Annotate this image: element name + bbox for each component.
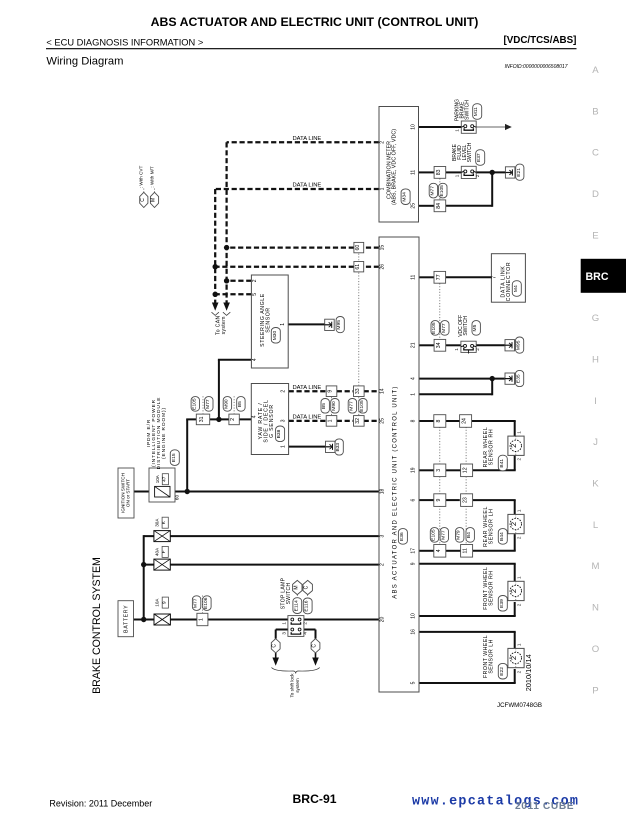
connector M34 [401, 189, 410, 205]
svg-text:SENSOR RH: SENSOR RH [488, 429, 494, 466]
svg-text:5: 5 [410, 681, 416, 684]
svg-text:24: 24 [462, 418, 468, 424]
connector E116 [303, 598, 312, 614]
connector box 83 [434, 167, 446, 179]
svg-text:2: 2 [509, 589, 518, 593]
wire steering sensor pin 4 branch [218, 360, 252, 420]
svg-text:M95: M95 [336, 320, 342, 330]
wire VDC OFF switch to ground M95 [476, 344, 505, 346]
svg-text:BATTERY: BATTERY [123, 605, 129, 633]
svg-text:10: 10 [410, 613, 416, 619]
svg-text:E105: E105 [439, 185, 445, 197]
svg-text:E15: E15 [171, 453, 177, 462]
wire meter pin 11 to connector 83 [419, 171, 435, 173]
page title [151, 15, 479, 29]
svg-text:C: C [312, 644, 318, 648]
CAN brackets [212, 312, 231, 315]
svg-text:10A: 10A [154, 598, 159, 607]
connector box 31 [196, 414, 209, 425]
svg-text:BRC-91: BRC-91 [292, 792, 336, 806]
connector box 11 rear [461, 545, 473, 558]
svg-text:2: 2 [475, 348, 480, 351]
footer revision [49, 798, 152, 808]
shift lock arrow right [312, 653, 319, 666]
fuse 30A [154, 531, 170, 542]
svg-text:2: 2 [516, 603, 521, 606]
svg-text:M: M [293, 585, 299, 589]
svg-text:C: C [592, 148, 599, 159]
connector box 77 [434, 271, 446, 283]
wire connector 34 to VDC OFF switch [446, 344, 461, 346]
svg-text:B: B [592, 106, 598, 117]
svg-text:7: 7 [492, 276, 498, 279]
svg-text:SWITCH: SWITCH [463, 316, 469, 336]
svg-text:(ENGINE ROOM)): (ENGINE ROOM)) [161, 407, 167, 459]
svg-text:JCFWM0748GB: JCFWM0748GB [497, 702, 542, 709]
wire front wheel sensor LH return to ABS pin 5 [419, 669, 516, 683]
svg-text:2011 CUBE: 2011 CUBE [515, 801, 574, 812]
svg-text:4: 4 [410, 377, 416, 380]
svg-text:1: 1 [282, 622, 287, 625]
dotted link 83-84 [439, 179, 441, 201]
svg-text:1: 1 [516, 509, 521, 512]
ground symbol E21 [505, 167, 515, 178]
ABS right pin 16 [410, 629, 416, 635]
fuse 10A battery [154, 614, 170, 625]
svg-text:M77: M77 [205, 399, 211, 409]
meter pin 11 [410, 170, 416, 175]
wire connector 83 to brake fluid level switch [446, 171, 462, 173]
connector box 12 [461, 464, 473, 477]
svg-text:G: G [592, 313, 599, 324]
connector E22 [498, 663, 507, 679]
wire battery row to ABS pin 20 [134, 619, 380, 621]
svg-text:11: 11 [410, 274, 416, 279]
svg-text:19: 19 [410, 467, 416, 473]
svg-text:B5: B5 [321, 403, 327, 409]
svg-text:M: M [592, 561, 600, 572]
connector box 4 rear [434, 545, 446, 558]
rear LH pin 1 [516, 509, 521, 512]
connector E39 [498, 596, 507, 612]
yaw rate sensor box [251, 384, 288, 455]
front LH pin 1 [516, 643, 521, 646]
connector M5 [472, 321, 480, 336]
rear wheel sensor RH [508, 436, 524, 455]
svg-text:1: 1 [328, 419, 334, 422]
svg-text:8: 8 [436, 419, 442, 422]
dotted link 61-33 [358, 273, 360, 386]
label front wheel sensor LH [483, 635, 494, 678]
wire connector row to yaw sensor pin 4 [186, 418, 251, 420]
front RH pin 1 [516, 576, 521, 579]
svg-text:BRAKE CONTROL SYSTEM: BRAKE CONTROL SYSTEM [91, 557, 103, 694]
svg-text:Revision: 2011 December: Revision: 2011 December [49, 798, 152, 808]
svg-text:SWITCH: SWITCH [467, 142, 473, 162]
wire rear wheel sensor RH return to ABS pin 19 [419, 455, 516, 470]
svg-text:BRC: BRC [586, 271, 609, 283]
ground symbol M95 steering [325, 319, 335, 330]
connector B33 [335, 439, 343, 455]
svg-text:1: 1 [280, 445, 286, 448]
svg-text:14: 14 [380, 388, 386, 394]
svg-text:INFOID:0000000006508017: INFOID:0000000006508017 [505, 64, 568, 70]
connector M90 left [223, 397, 231, 412]
svg-text:DATA LINE: DATA LINE [293, 136, 322, 142]
svg-text:1: 1 [516, 643, 521, 646]
svg-text:2: 2 [516, 536, 521, 539]
steering pin 4 [252, 358, 258, 361]
wire connector 77 to data link connector pin 7 [445, 276, 491, 278]
svg-text:M77: M77 [348, 401, 354, 411]
svg-text:Wiring Diagram: Wiring Diagram [46, 56, 123, 68]
rear RH pin 2 [516, 457, 521, 460]
wire CAN data line 1 to meter pin 2 [227, 141, 379, 143]
svg-text:2: 2 [230, 418, 236, 421]
svg-text:system: system [295, 678, 300, 693]
ground symbol E35 [505, 373, 515, 384]
wire ABS pin 4 to ground E35 [419, 378, 505, 380]
svg-text:4: 4 [252, 415, 258, 418]
parking brake switch pin 1 [455, 129, 460, 132]
svg-text:: With M/T: : With M/T [150, 166, 155, 187]
connector box 3 [434, 464, 446, 477]
DLC pin 7 [492, 276, 498, 279]
connector box 60 [354, 242, 364, 252]
connector M77 rear [440, 528, 448, 543]
connector M79 rear [456, 528, 464, 543]
svg-text:4: 4 [252, 358, 258, 361]
connector box 34 [434, 339, 446, 351]
svg-text:A: A [592, 65, 599, 76]
svg-text:J: J [593, 437, 598, 448]
label To shift lock system [290, 673, 301, 698]
steering pin 1 [280, 323, 286, 326]
svg-text:11: 11 [410, 170, 416, 175]
label rear wheel sensor RH [483, 427, 494, 468]
svg-text:M77: M77 [441, 323, 447, 333]
svg-text:16: 16 [410, 629, 416, 635]
legend With MT [150, 166, 159, 207]
sidebar letters [592, 65, 600, 696]
svg-text:B33: B33 [335, 443, 341, 452]
svg-text:9: 9 [436, 499, 442, 502]
rear wheel sensor LH [508, 514, 524, 533]
svg-text:9: 9 [410, 562, 416, 565]
stop lamp pin 2 [302, 622, 307, 625]
connector M77 above 34 [441, 321, 449, 336]
svg-text:6: 6 [410, 498, 416, 501]
svg-text:1: 1 [454, 348, 459, 351]
meter pin 10 [410, 124, 416, 130]
connector E37 [476, 150, 485, 166]
fuse 10A IPDM [155, 486, 170, 497]
fuse id box 9 [161, 597, 168, 608]
wire 40A fuse row to ABS pin 2 [144, 564, 379, 566]
svg-text:15: 15 [380, 245, 386, 251]
svg-text:2: 2 [509, 522, 518, 526]
wire yaw data line row 1 [289, 390, 379, 392]
ABS left pin 15 [380, 245, 386, 251]
svg-text:47: 47 [161, 476, 167, 482]
connector M30 [271, 328, 280, 344]
svg-text:E105: E105 [191, 398, 197, 410]
svg-text:M34: M34 [402, 192, 408, 202]
svg-text:2: 2 [280, 390, 286, 393]
CAN arrow 2 [212, 303, 219, 311]
svg-text:25: 25 [410, 203, 416, 209]
svg-text:E116: E116 [304, 600, 310, 611]
stop lamp switch [288, 616, 304, 637]
wire ignition switch to IPDM and ABS pin 18 [134, 491, 379, 493]
connector B5 yaw [321, 399, 329, 414]
ABS right pin 9 [410, 562, 416, 565]
ABS right pin 8 [410, 419, 416, 422]
ground symbol M95 VDC [505, 340, 515, 351]
svg-text:25: 25 [380, 418, 386, 424]
svg-text:M4: M4 [513, 285, 519, 292]
header right: system tag [503, 35, 576, 46]
legend With CVT [139, 165, 148, 207]
wire CAN row to steering sensor pin 5 [215, 293, 251, 295]
label front wheel sensor RH [483, 567, 494, 610]
svg-text:M79: M79 [456, 530, 462, 540]
ABS left pin 26 [380, 264, 386, 270]
svg-text:SENSOR LH: SENSOR LH [488, 639, 494, 673]
connector E114 [293, 598, 302, 614]
wire yaw sensor pin 1 to ground B33 [289, 446, 326, 448]
junction dot pin4 ground [490, 376, 495, 381]
connector box 1 yaw [326, 416, 337, 427]
fuse 40A [154, 559, 170, 570]
svg-text:3: 3 [280, 419, 286, 422]
data link connector box [491, 254, 525, 303]
svg-text:< ECU DIAGNOSIS INFORMATION >: < ECU DIAGNOSIS INFORMATION > [46, 37, 203, 47]
wire branch up from ignition feed [186, 419, 188, 491]
svg-text:SENSOR: SENSOR [266, 307, 272, 333]
steering angle sensor box [251, 275, 288, 368]
hexagon M stop lamp [293, 580, 302, 594]
hexagon C stop lamp [303, 580, 312, 594]
brake fluid pin 1 [455, 174, 460, 177]
connector E105 left [191, 397, 199, 412]
svg-text:K: K [592, 479, 599, 490]
yaw pin 2 [280, 390, 286, 393]
junction dot 40A branch [141, 562, 146, 567]
svg-text:ABS ACTUATOR AND ELECTRIC UNIT: ABS ACTUATOR AND ELECTRIC UNIT (CONTROL … [151, 15, 479, 29]
wire stop lamp switch to shift lock left [276, 630, 288, 639]
connector B38 [276, 426, 285, 442]
svg-text:E114: E114 [293, 600, 299, 611]
dotted link box1 battery [201, 596, 203, 614]
svg-text:11: 11 [463, 548, 469, 553]
svg-text:2010/10/14: 2010/10/14 [524, 654, 533, 691]
IPDM pin 60 [175, 495, 180, 501]
svg-text:M11: M11 [473, 107, 479, 116]
connector E105 above 34 [431, 321, 439, 336]
connector E105 above 84 [439, 183, 447, 198]
svg-text:[VDC/TCS/ABS]: [VDC/TCS/ABS] [503, 35, 576, 46]
system caption BRAKE CONTROL SYSTEM [91, 557, 103, 694]
connector box 24 [460, 415, 472, 428]
parking brake switch case ground lead [476, 124, 512, 130]
svg-text:E105: E105 [359, 400, 365, 412]
wire connector 84 to junction [446, 171, 493, 206]
yaw pin 3 [280, 419, 286, 422]
svg-text:2: 2 [252, 279, 258, 282]
svg-text:83: 83 [436, 169, 442, 175]
svg-text:M90: M90 [331, 401, 337, 411]
ABS right pin 4 [410, 377, 416, 380]
connector E105 yaw [359, 399, 367, 414]
front LH pin 2 [516, 670, 521, 673]
svg-text:B5: B5 [237, 401, 243, 407]
svg-text:10: 10 [410, 124, 416, 130]
svg-text:D: D [592, 189, 599, 200]
connector M95 steering [336, 317, 344, 333]
ABS right pin 11 [410, 274, 416, 279]
label DATA LINE 3 [293, 385, 322, 391]
connector box 32 [354, 416, 365, 427]
connector E105 rear [430, 528, 438, 543]
stop lamp pin 4 [302, 632, 307, 635]
svg-text:B41: B41 [499, 459, 505, 468]
ground symbol B33 [326, 441, 336, 452]
svg-text:To shift lock: To shift lock [290, 673, 295, 698]
connector M77 left [205, 397, 213, 412]
connector M11 [473, 104, 482, 120]
label DATA LINE 4 [293, 415, 322, 421]
connector box 1 battery [197, 613, 208, 625]
front RH pin 2 [516, 603, 521, 606]
label DATA LINE 1 [293, 136, 322, 142]
label 40A [154, 547, 159, 556]
svg-text:1: 1 [380, 187, 386, 190]
svg-text:34: 34 [436, 342, 442, 348]
svg-text:N: N [592, 603, 599, 614]
infoid code [505, 64, 568, 70]
svg-text:18: 18 [380, 489, 386, 495]
svg-text:2: 2 [516, 457, 521, 460]
combination meter box [379, 107, 419, 223]
svg-text:9: 9 [161, 601, 167, 604]
svg-text:M30: M30 [272, 330, 278, 340]
junction dot battery branch [141, 617, 146, 622]
ABS right pin 19 [410, 467, 416, 473]
VDC OFF switch [461, 341, 476, 353]
plot date [524, 654, 533, 691]
svg-text:30A: 30A [154, 518, 159, 527]
svg-text:ON or START: ON or START [125, 479, 130, 507]
hexagon C shift lock right [311, 639, 320, 653]
fuse id box K [161, 517, 168, 528]
ABS left pin 25 [380, 418, 386, 424]
svg-text:1: 1 [198, 618, 204, 621]
svg-text:10A: 10A [155, 474, 160, 483]
ABS right pin 21 [410, 342, 416, 348]
svg-text:4: 4 [302, 632, 307, 635]
svg-text:E36: E36 [399, 532, 405, 541]
shift lock brace [272, 668, 320, 674]
wire CAN row to ABS pin 15 [227, 246, 379, 248]
parking brake switch [461, 121, 476, 133]
svg-text:E: E [592, 230, 598, 241]
svg-text:61: 61 [355, 264, 361, 270]
wire meter pin 10 to parking brake switch [419, 126, 462, 128]
svg-text:2: 2 [380, 563, 386, 566]
fuse id box F [161, 546, 168, 557]
svg-text:3: 3 [380, 534, 386, 537]
label brake fluid level switch [452, 142, 473, 162]
svg-text:5: 5 [252, 293, 258, 296]
svg-text:L: L [593, 520, 599, 531]
connector M77 battery [192, 596, 200, 611]
svg-text:4: 4 [436, 549, 442, 552]
connector box 61 [354, 262, 364, 272]
wire ABS pin 16 to front wheel sensor LH [419, 632, 516, 648]
ABS actuator box [379, 237, 419, 692]
shift lock arrow left [272, 653, 279, 666]
svg-text:E105: E105 [431, 322, 437, 334]
svg-text:31: 31 [199, 416, 205, 422]
svg-text:C: C [304, 585, 310, 589]
label 10A battery [154, 598, 159, 607]
svg-text:B4: B4 [466, 532, 472, 538]
svg-text:21: 21 [410, 342, 416, 348]
meter pin 1 [380, 187, 386, 190]
svg-text:60: 60 [355, 245, 361, 251]
hexagon C shift lock left [271, 639, 280, 653]
footer page number BRC-91 [292, 792, 336, 806]
connector E15 [170, 450, 179, 466]
connector B44 [498, 529, 507, 545]
wire CAN row to steering sensor pin 2 [227, 280, 252, 282]
ignition switch box [118, 468, 134, 518]
connector E35 [516, 370, 524, 386]
wire ABS pin 21 to connector 34 [419, 344, 434, 346]
connector M77 yaw [348, 399, 356, 414]
connector M4 [512, 281, 521, 297]
ABS left pin 20 [380, 617, 386, 623]
ABS right pin 1 [410, 393, 416, 396]
svg-text:ABS ACTUATOR AND ELECTRIC UNIT: ABS ACTUATOR AND ELECTRIC UNIT (CONTROL … [392, 385, 398, 598]
svg-text:M77: M77 [440, 530, 446, 540]
svg-text:1: 1 [455, 129, 460, 132]
svg-text:G SENSOR: G SENSOR [269, 404, 275, 438]
wire ABS pin 6 to rear wheel sensor LH [419, 500, 516, 514]
ABS left pin 18 [380, 489, 386, 495]
wire CAN vertical branch 1 [225, 142, 227, 302]
label 30A [154, 518, 159, 527]
dotted link 33-32 [358, 397, 360, 415]
connector B5 left [237, 397, 245, 412]
svg-text:DATA LINE: DATA LINE [293, 183, 322, 189]
svg-text:F: F [161, 550, 167, 553]
svg-text:M: M [151, 198, 157, 202]
steering pin 2 [252, 279, 258, 282]
VDC pin 1 [454, 348, 459, 351]
svg-text:26: 26 [380, 264, 386, 270]
svg-text:2: 2 [302, 622, 307, 625]
svg-text:E21: E21 [516, 168, 522, 177]
stop lamp pin 1 [282, 622, 287, 625]
ABS right pin 10 [410, 613, 416, 619]
label VDC OFF switch [458, 315, 469, 337]
svg-text:H: H [592, 354, 599, 365]
section heading Wiring Diagram [46, 56, 123, 68]
label parking brake switch [454, 99, 470, 121]
svg-text:SWITCH: SWITCH [464, 100, 470, 120]
